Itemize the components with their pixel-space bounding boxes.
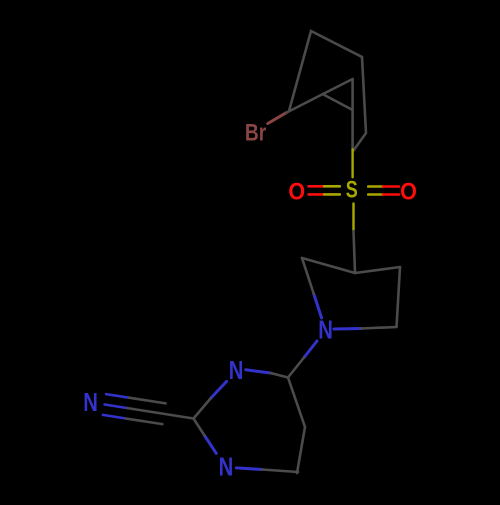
- pyrrolidine N-C2 bond: blue half then gray half: [314, 294, 322, 318]
- nitrile triple bond: three parallel lines, blue halves then gray halves: [103, 394, 166, 424]
- svg-text:N: N: [83, 388, 98, 417]
- pyrrolidine N - pyrimidine C4 bond: blue half then gray half: [304, 341, 317, 358]
- S=O double bond right: [368, 187, 399, 195]
- svg-text:O: O: [400, 177, 417, 204]
- cyclopropane ring: [323, 79, 353, 110]
- svg-text:N: N: [219, 452, 234, 481]
- pyrimidine N3-C2 bond: blue half then gray half: [211, 382, 227, 399]
- svg-text:N: N: [318, 315, 333, 344]
- pyrimidine N1-C6 bond: blue half then gray half: [236, 468, 262, 470]
- wire C-S bond upper: sulfur half: [351, 150, 353, 178]
- pyrimidine ring carbon edges C4-C5, C5-C6: [288, 378, 305, 474]
- pyrimidine N3-C4 bond: blue half then gray half: [246, 370, 271, 373]
- svg-text:N: N: [229, 356, 244, 385]
- pyrrolidine ring carbon edges: [302, 258, 400, 327]
- svg-text:Br: Br: [245, 118, 267, 146]
- wire C-S bond upper: gray half: [351, 110, 354, 150]
- wire Br-C bond gray half: [287, 94, 323, 113]
- S=O double bond left: [309, 186, 340, 194]
- nitrile C to ring C2 single bond gray (continues center line): [128, 408, 194, 418]
- svg-text:S: S: [346, 177, 358, 203]
- svg-text:O: O: [288, 177, 305, 204]
- wire S-C bond lower: gray half: [354, 231, 356, 273]
- peak ring upper lines: [289, 31, 366, 151]
- wire Br-C bond red half: [268, 113, 287, 124]
- wire S-C bond lower: sulfur half: [352, 204, 354, 232]
- pyrrolidine N-C5 bond: blue half then gray half: [334, 327, 361, 331]
- pyrimidine N1-C2 bond: blue half then gray half: [205, 436, 217, 454]
